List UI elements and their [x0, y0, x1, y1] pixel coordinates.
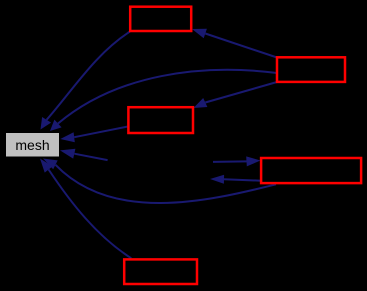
- arrowhead into box1 from box2: [192, 29, 207, 39]
- node mesh: [6, 133, 59, 157]
- wire edge box5 to mesh: [49, 170, 132, 259]
- wire edge label segment to mesh: [74, 154, 107, 160]
- arrowhead midair box4 to label: [210, 175, 224, 184]
- node box3: [128, 107, 193, 133]
- node box5: [124, 259, 197, 284]
- arrowhead into mesh from box2: [50, 120, 62, 131]
- arrowhead into box4: [246, 156, 260, 166]
- svg-text:mesh: mesh: [15, 137, 49, 153]
- node box1: [130, 7, 191, 31]
- wire edge box2 to mesh: [58, 70, 277, 124]
- node box2: [277, 57, 345, 82]
- wire edge box4 to label segment: [224, 179, 262, 180]
- wire edge box4 to mesh bottom curve: [56, 165, 277, 203]
- node box4: [261, 158, 361, 183]
- arrowhead into box3 from box2: [194, 98, 208, 108]
- arrowhead into mesh from box5: [40, 159, 53, 173]
- arrowhead into mesh from label segment: [60, 149, 75, 159]
- arrowhead into mesh from box1: [41, 117, 52, 130]
- wire edge label segment to box4: [213, 160, 247, 163]
- wire edge box3 to mesh: [74, 127, 128, 138]
- arrowhead into mesh from box3: [60, 132, 75, 142]
- wire edge box2 to box1: [205, 34, 277, 58]
- wire edge box2 to box3: [205, 82, 277, 103]
- arrowhead into mesh from box4 curve: [43, 159, 58, 170]
- wire edge box1 to mesh: [47, 32, 130, 120]
